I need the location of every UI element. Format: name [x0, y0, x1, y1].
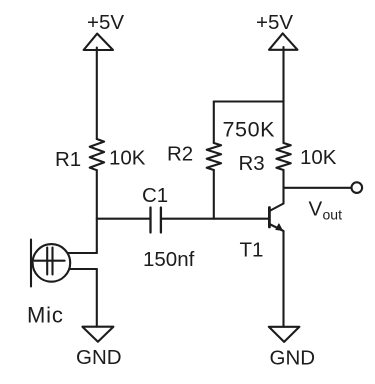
- svg-text:R2: R2: [167, 143, 193, 166]
- wire: Vout tap: [284, 187, 352, 189]
- svg-text:R3: R3: [239, 152, 265, 175]
- transistor T1: [269, 204, 283, 232]
- resistor R3: [276, 143, 290, 170]
- svg-text:+5V: +5V: [256, 11, 293, 34]
- svg-text:C1: C1: [142, 184, 168, 207]
- capacitor C1: [151, 208, 161, 233]
- svg-text:Mic: Mic: [27, 303, 64, 328]
- output terminal circle: [352, 182, 363, 193]
- wire: mic bottom terminal: [69, 268, 97, 270]
- svg-text:150nf: 150nf: [143, 248, 195, 271]
- wire: mic bottom to ground (left): [96, 269, 98, 327]
- wire: branch from right rail to R2 (horizontal): [214, 100, 284, 102]
- svg-text:V: V: [309, 198, 323, 221]
- svg-text:10K: 10K: [300, 146, 337, 169]
- +5V power symbol (right): [269, 33, 298, 49]
- svg-text:750K: 750K: [223, 118, 276, 142]
- wire: right +5V to R3 top: [282, 47, 284, 143]
- svg-text:GND: GND: [270, 347, 316, 370]
- svg-text:GND: GND: [76, 346, 122, 369]
- microphone Mic: [31, 240, 70, 287]
- resistor R2: [207, 143, 221, 170]
- wire: C1 right plate to base node: [161, 218, 270, 220]
- svg-text:T1: T1: [240, 239, 264, 262]
- wire: R2 bottom to base node: [213, 170, 215, 219]
- svg-text:10K: 10K: [109, 147, 146, 170]
- label Vout: [309, 198, 343, 223]
- wire: node to C1 left plate: [97, 218, 151, 220]
- resistor R1: [90, 139, 104, 170]
- wire: R1 bottom to mic top terminal (node to C1): [96, 170, 98, 253]
- svg-text:R1: R1: [55, 148, 81, 171]
- wire: mic top terminal to left node wire: [68, 252, 97, 254]
- ground symbol (right): [269, 327, 300, 342]
- wire: emitter to ground (right): [282, 231, 284, 327]
- ground symbol (left): [82, 327, 113, 342]
- wire: R2 branch vertical down to R2 top: [213, 102, 215, 144]
- wire: left +5V to resistor R1 top: [96, 48, 98, 140]
- svg-text:out: out: [323, 207, 343, 223]
- wire: R3 bottom to collector: [282, 170, 284, 204]
- +5V power symbol (left): [84, 34, 113, 50]
- svg-text:+5V: +5V: [87, 11, 124, 34]
